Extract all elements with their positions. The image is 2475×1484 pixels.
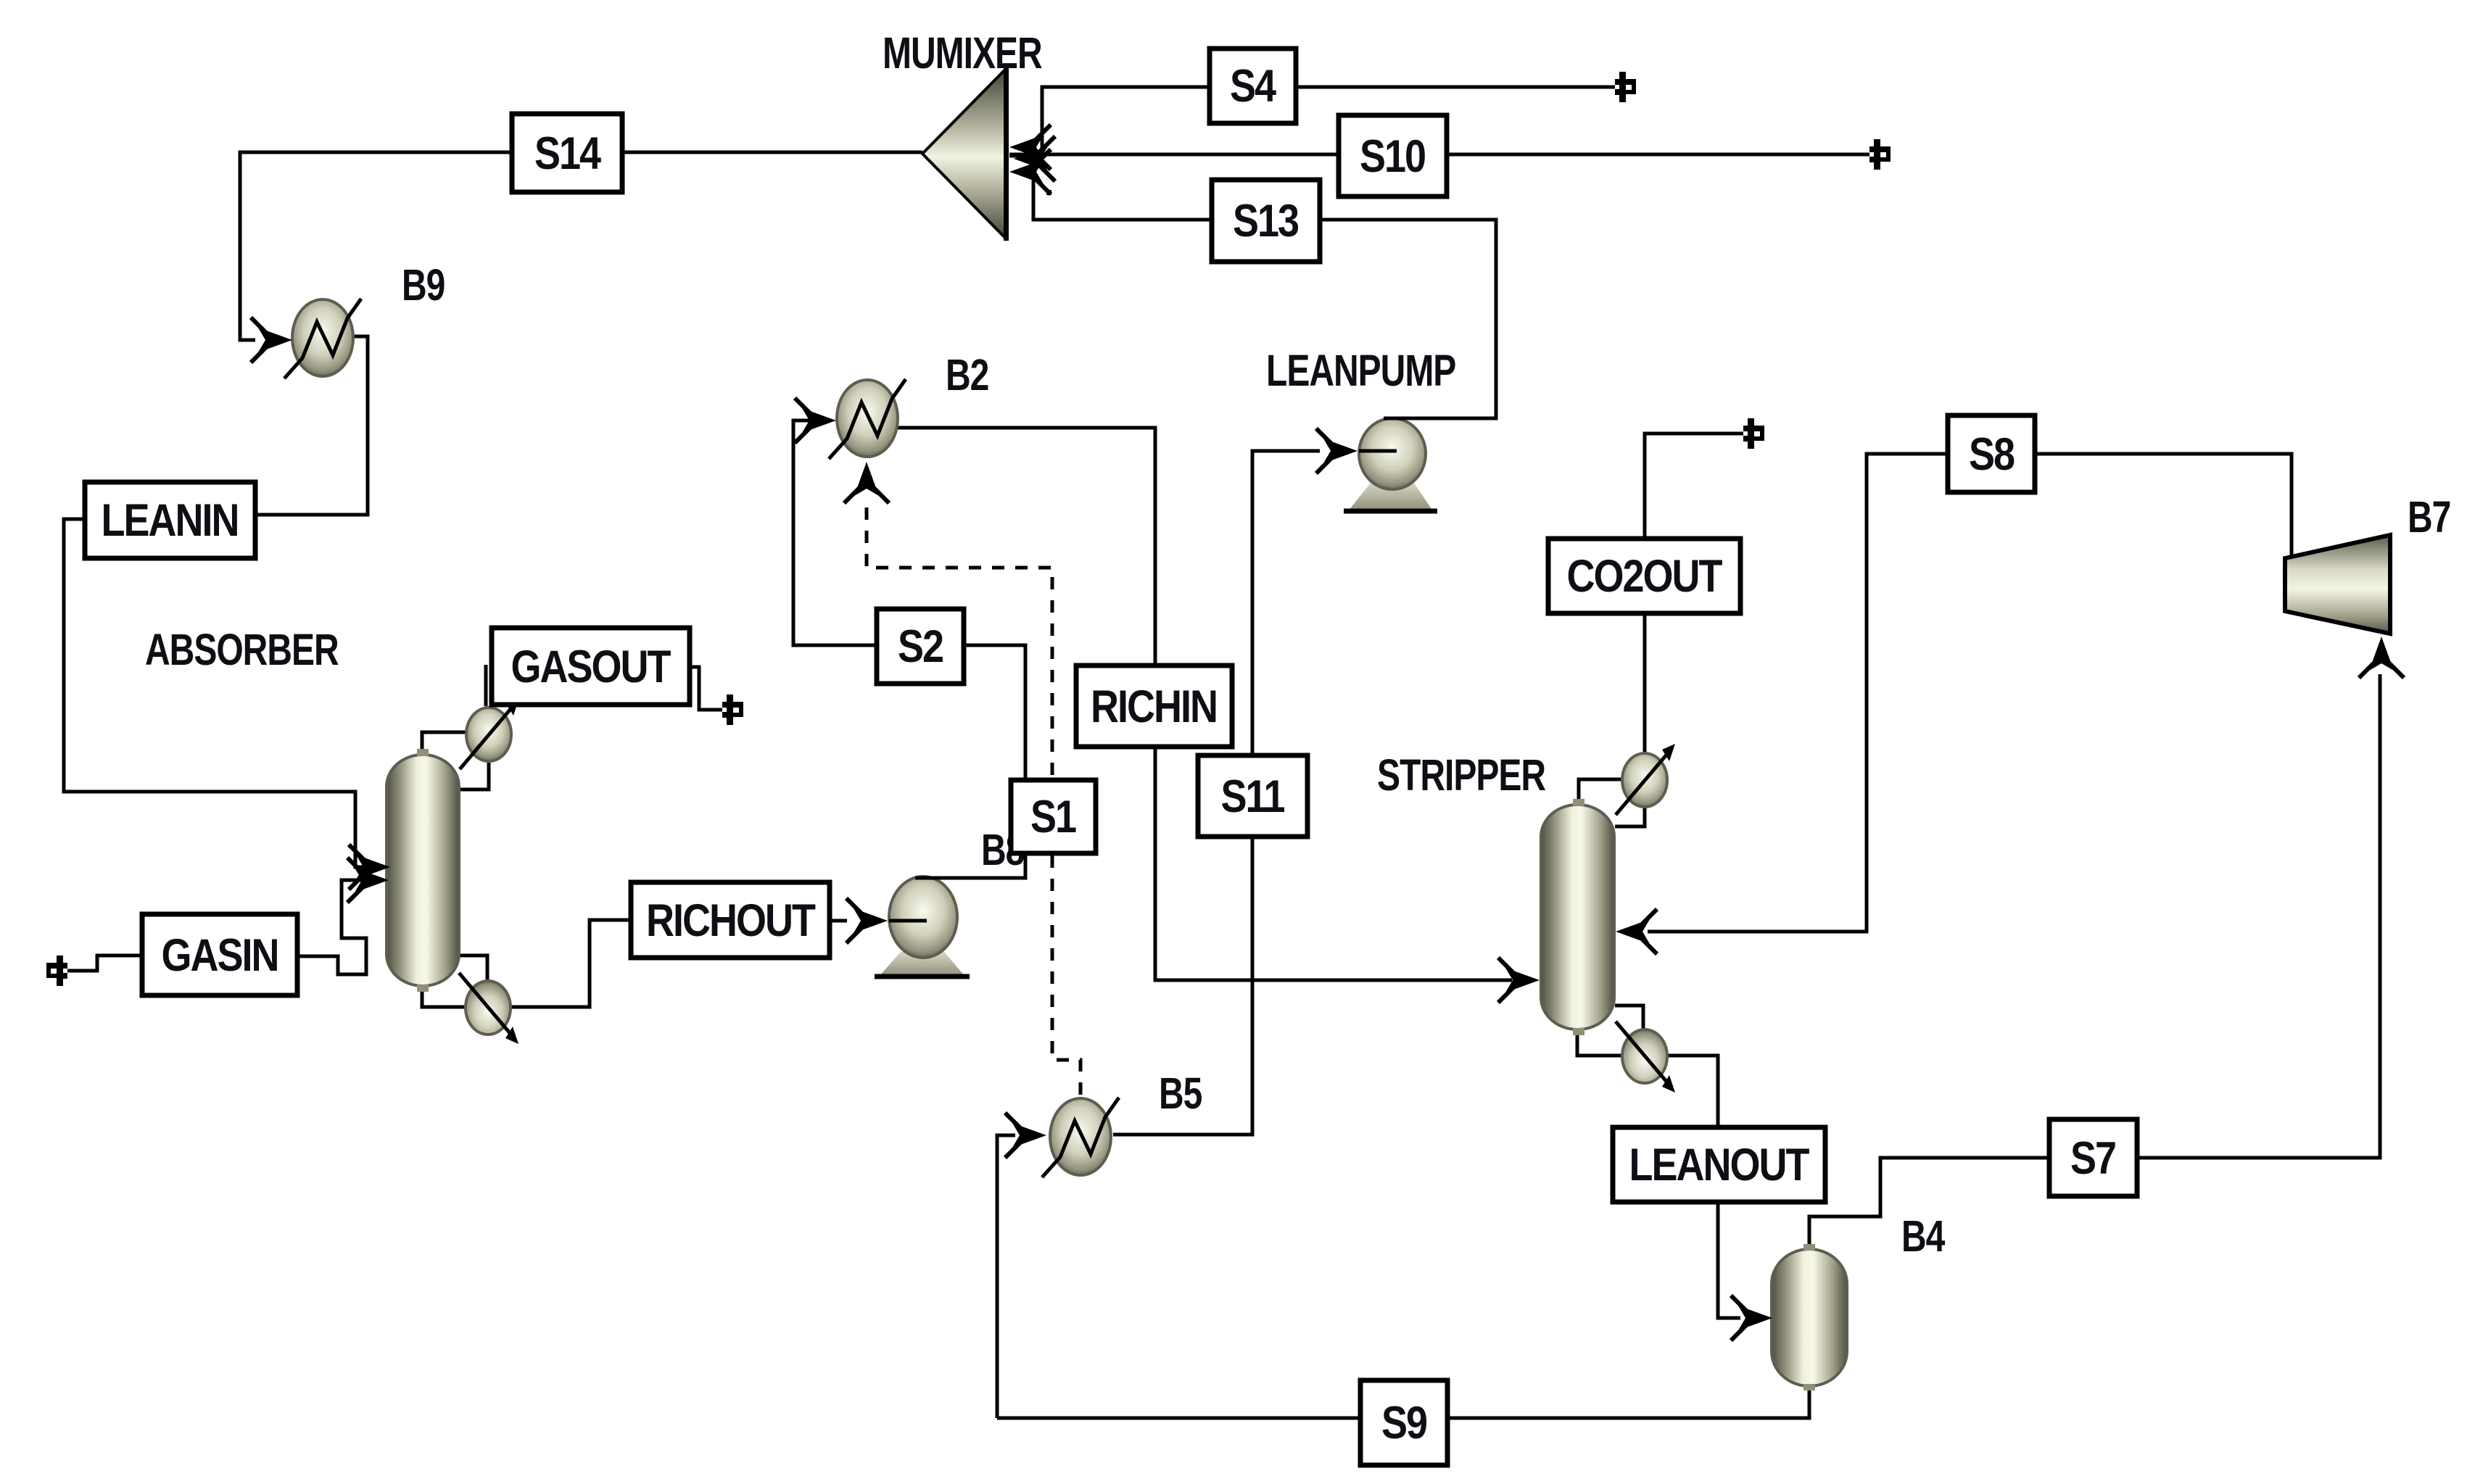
wire stripper bottom to reboiler — [1577, 1029, 1624, 1056]
box RICHOUT — [631, 882, 830, 958]
node CO2OUT product glyph — [1743, 418, 1764, 449]
svg-text:LEANIN: LEANIN — [102, 495, 239, 546]
arrow into B5 — [1005, 1113, 1046, 1158]
wire condenser reflux to column — [459, 763, 489, 789]
box GASIN — [142, 914, 297, 995]
column ABSORBER — [387, 755, 459, 986]
wire S14: mixer apex to B9 — [240, 152, 922, 340]
wire condenser to GASOUT box — [484, 665, 488, 706]
svg-text:S1: S1 — [1030, 792, 1076, 842]
svg-text:S14: S14 — [534, 128, 602, 179]
svg-text:B9: B9 — [402, 260, 445, 310]
wire condenser to CO2OUT product — [1645, 434, 1743, 756]
svg-text:B5: B5 — [1159, 1068, 1202, 1118]
box S11 — [1198, 755, 1307, 837]
wire stripper top to condenser — [1579, 779, 1624, 801]
column STRIPPER — [1541, 805, 1614, 1029]
box S8 — [1948, 415, 2035, 492]
svg-text:ABSORBER: ABSORBER — [145, 624, 339, 674]
svg-text:RICHOUT: RICHOUT — [646, 895, 816, 946]
svg-text:B4: B4 — [1901, 1211, 1946, 1261]
condenser on stripper — [1616, 744, 1675, 815]
svg-text:LEANOUT: LEANOUT — [1629, 1140, 1810, 1190]
wire absorber top to condenser — [422, 732, 468, 755]
arrow into LEANPUMP — [1316, 428, 1358, 473]
arrow into B9 — [251, 318, 292, 362]
condenser on absorber — [460, 698, 519, 769]
svg-text:B7: B7 — [2408, 492, 2450, 542]
svg-text:S2: S2 — [898, 621, 943, 672]
wire B5 outlet S11 to leanpump — [1113, 451, 1320, 1135]
svg-text:GASOUT: GASOUT — [511, 642, 672, 692]
box S7 — [2049, 1119, 2137, 1196]
wire GASIN feed line — [67, 956, 142, 971]
arrow S7 up into B7 — [2359, 637, 2404, 678]
arrow GASIN into absorber — [347, 858, 389, 903]
svg-text:CO2OUT: CO2OUT — [1567, 551, 1723, 602]
wire GASOUT box to product — [690, 667, 722, 710]
svg-text:LEANPUMP: LEANPUMP — [1266, 345, 1455, 395]
wire B9 outlet to LEANIN — [255, 336, 368, 515]
box RICHIN — [1076, 666, 1232, 747]
heater B9 — [284, 299, 361, 378]
box S2 — [877, 609, 964, 684]
wire reboiler vapor return — [459, 956, 487, 983]
arrow up into B2 bottom — [844, 462, 889, 503]
svg-text:B2: B2 — [946, 349, 988, 399]
arrow LEANIN into absorber — [349, 845, 390, 890]
box S13 — [1212, 180, 1320, 262]
svg-text:STRIPPER: STRIPPER — [1377, 750, 1545, 800]
reboiler on absorber — [459, 973, 518, 1044]
wire S10 — [1009, 153, 1869, 157]
arrow mixer inlet 2 — [1009, 149, 1051, 194]
svg-text:GASIN: GASIN — [162, 930, 278, 981]
wire LEANIN to absorber feed — [64, 519, 377, 867]
wire dashed B2 to B5 — [867, 507, 1081, 1098]
wire RICHOUT to pump — [830, 919, 847, 923]
heater B2 — [829, 379, 906, 459]
pump LEANPUMP sphere — [1359, 418, 1426, 489]
wire GASIN to absorber — [297, 880, 377, 974]
wire LEANOUT to B4 — [1718, 1201, 1740, 1318]
node S10 product glyph — [1869, 139, 1891, 170]
box CO2OUT — [1548, 539, 1740, 613]
box S9 — [1360, 1380, 1447, 1465]
wire absorber bottom to reboiler — [422, 985, 468, 1007]
svg-text:S4: S4 — [1230, 61, 1276, 112]
box S14 — [512, 114, 622, 192]
arrow into B2 — [795, 398, 836, 443]
wire stripper reboiler vapor return — [1615, 1006, 1643, 1032]
compressor B7 — [2285, 535, 2390, 634]
heater B5 — [1042, 1098, 1119, 1177]
box LEANIN — [85, 482, 255, 558]
arrow S8 into stripper — [1616, 909, 1657, 954]
arrow into pump B8 — [846, 898, 888, 943]
svg-text:S10: S10 — [1360, 131, 1426, 182]
wire reboiler to LEANOUT — [1666, 1056, 1718, 1128]
box LEANOUT — [1613, 1127, 1825, 1202]
arrow RICHIN into stripper — [1498, 958, 1540, 1003]
arrow into B4 — [1731, 1296, 1772, 1340]
vessel B4 — [1772, 1249, 1847, 1386]
wire B4 bottom S9 line — [997, 1385, 1809, 1418]
wire S1 up through S2 to B2 — [793, 420, 1025, 853]
reboiler on stripper — [1616, 1021, 1675, 1093]
wire reboiler to RICHOUT — [510, 920, 631, 1007]
wire S4 — [1042, 87, 1615, 154]
box S4 — [1210, 49, 1296, 123]
node GASOUT product glyph — [722, 695, 743, 725]
wire S9 to B5 inlet — [997, 1135, 1015, 1418]
svg-text:MUMIXER: MUMIXER — [883, 28, 1042, 78]
box S10 — [1339, 115, 1447, 196]
mixer MUMIXER — [922, 70, 1005, 238]
node GASIN feed glyph — [46, 956, 67, 986]
svg-text:S8: S8 — [1969, 429, 2015, 480]
arrow mixer inlet 3 — [1014, 136, 1055, 181]
svg-text:S9: S9 — [1381, 1398, 1427, 1448]
box GASOUT — [492, 628, 690, 705]
wire B2 outlet to RICHIN to stripper — [897, 428, 1512, 980]
svg-text:S7: S7 — [2070, 1133, 2115, 1184]
box S1 — [1011, 780, 1096, 853]
svg-text:S11: S11 — [1220, 771, 1284, 822]
pump B8 sphere — [889, 876, 957, 958]
wire B4 top S7 to B7 — [1809, 674, 2380, 1249]
wire stripper condenser reflux — [1615, 805, 1645, 826]
pump B8 base — [879, 952, 965, 977]
wire S8 from B7 to stripper — [1648, 454, 2292, 932]
node S4 product glyph — [1615, 72, 1636, 102]
arrow mixer inlet 1 — [1009, 125, 1051, 170]
pump LEANPUMP base — [1348, 483, 1433, 511]
svg-text:S13: S13 — [1233, 196, 1299, 246]
svg-text:RICHIN: RICHIN — [1091, 681, 1217, 732]
node stray dot near mixer junction — [1046, 190, 1051, 195]
